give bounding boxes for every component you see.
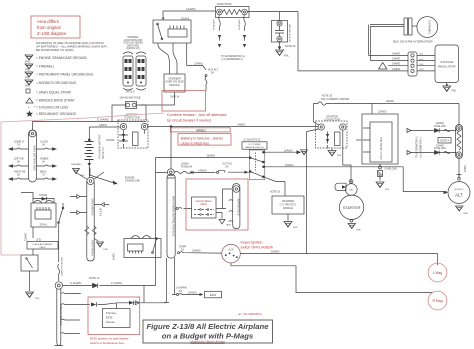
svg-text:2AWG: 2AWG xyxy=(113,253,116,260)
svg-text:MAIN BATTERY BUS: MAIN BATTERY BUS xyxy=(33,146,37,171)
svg-text:FWL: FWL xyxy=(284,56,290,58)
svg-text:22AWG: 22AWG xyxy=(188,292,197,295)
svg-text:Screen: Screen xyxy=(106,320,116,324)
svg-text:(2-10) NOTE 22: (2-10) NOTE 22 xyxy=(244,139,262,142)
svg-text:EFIS: EFIS xyxy=(210,293,216,297)
svg-text:S700-2-50 SERIES: S700-2-50 SERIES xyxy=(123,43,143,45)
svg-text:MODULE: MODULE xyxy=(169,84,180,87)
svg-text:5A: 5A xyxy=(181,249,184,252)
svg-text:NOTE 8: NOTE 8 xyxy=(99,208,101,217)
svg-text:4AWG: 4AWG xyxy=(238,123,246,127)
svg-text:5A: 5A xyxy=(17,160,20,163)
svg-text:4AWG: 4AWG xyxy=(464,165,467,172)
svg-text:FUSELINK: FUSELINK xyxy=(239,19,241,30)
svg-text:TERMINAL: TERMINAL xyxy=(127,36,139,39)
svg-text:TO ALTERNATOR (-): TO ALTERNATOR (-) xyxy=(416,136,419,158)
svg-text:LOCATIONS FOR: LOCATIONS FOR xyxy=(124,39,143,42)
svg-text:NOTE 9: NOTE 9 xyxy=(126,91,135,94)
svg-text:switch OFF/L/R/Both: switch OFF/L/R/Both xyxy=(241,246,273,250)
svg-text:= ENGINE CRANKCASE GROUND: = ENGINE CRANKCASE GROUND xyxy=(36,56,87,60)
svg-text:14AWG: 14AWG xyxy=(392,52,400,55)
svg-text:5A: 5A xyxy=(226,166,229,169)
svg-text:22AWG: 22AWG xyxy=(207,154,216,157)
svg-text:FUSE LINK: FUSE LINK xyxy=(434,148,446,150)
svg-text:FWL: FWL xyxy=(104,249,109,251)
svg-text:2 14AWG: 2 14AWG xyxy=(111,281,122,285)
svg-text:BE DOWNSIZED TO 4AWG: BE DOWNSIZED TO 4AWG xyxy=(36,48,74,52)
svg-text:GND: GND xyxy=(463,213,468,215)
svg-text:14AWG: 14AWG xyxy=(392,63,400,66)
svg-text:FWL: FWL xyxy=(385,189,390,191)
svg-text:ACS: ACS xyxy=(229,249,234,252)
svg-text:ALT: ALT xyxy=(455,193,463,198)
svg-text:S704-1: S704-1 xyxy=(40,224,48,227)
svg-text:22AWG: 22AWG xyxy=(181,163,189,166)
svg-text:HAL CURRENT LIMITER: HAL CURRENT LIMITER xyxy=(321,98,349,101)
svg-text:R Mag: R Mag xyxy=(433,299,443,303)
svg-text:ENDURANCE BUS: ENDURANCE BUS xyxy=(59,304,62,326)
svg-text:OVM-14: OVM-14 xyxy=(170,96,180,99)
svg-text:+: + xyxy=(28,105,30,109)
svg-text:NOTE 11: NOTE 11 xyxy=(455,189,465,191)
svg-text:FEED: FEED xyxy=(40,247,46,249)
svg-text:NOTE 4: NOTE 4 xyxy=(440,140,450,143)
svg-text:FWL: FWL xyxy=(337,155,342,157)
svg-text:NOTE 18: NOTE 18 xyxy=(270,191,281,194)
svg-text:5A: 5A xyxy=(17,173,20,176)
svg-text:22AWG: 22AWG xyxy=(192,250,201,253)
svg-text:JUNCTION: JUNCTION xyxy=(216,2,231,6)
svg-text:(+) LOADMETER (-): (+) LOADMETER (-) xyxy=(420,137,423,158)
svg-text:FUSELINK: FUSELINK xyxy=(214,19,216,30)
svg-text:= REDUNDANT GROUNDS: = REDUNDANT GROUNDS xyxy=(36,112,76,116)
svg-text:(-) LOADMETER (-): (-) LOADMETER (-) xyxy=(221,58,243,61)
svg-text:AVN: AVN xyxy=(25,85,30,88)
svg-text:(NOTE 17): (NOTE 17) xyxy=(102,147,105,159)
svg-text:14AWG: 14AWG xyxy=(186,7,196,11)
svg-text:1N4001: 1N4001 xyxy=(39,194,48,197)
svg-text:4AWG: 4AWG xyxy=(386,99,394,103)
svg-text:Combine revision - turn off al: Combine revision - turn off alternator xyxy=(167,113,228,117)
svg-text:CONTACTOR: CONTACTOR xyxy=(124,117,140,120)
svg-text:AVN: AVN xyxy=(227,224,232,227)
svg-text:Keyed ignition: Keyed ignition xyxy=(241,241,263,245)
svg-text:FWL: FWL xyxy=(25,69,31,72)
svg-text:FIREWALL: FIREWALL xyxy=(71,163,83,166)
svg-text:5A: 5A xyxy=(179,290,182,293)
svg-text:LR3-14 LINEAR REG: LR3-14 LINEAR REG xyxy=(380,137,383,160)
svg-text:by circuit breaker if needed: by circuit breaker if needed xyxy=(167,119,211,123)
svg-text:14AWG: 14AWG xyxy=(392,58,400,61)
svg-text:FWL: FWL xyxy=(293,227,298,229)
svg-text:22AWG: 22AWG xyxy=(284,150,293,153)
svg-text:B&C SD-8 PM ALTERNATOR: B&C SD-8 PM ALTERNATOR xyxy=(393,40,433,44)
svg-text:= AVIONICS GROUND BUS: = AVIONICS GROUND BUS xyxy=(36,81,76,85)
svg-text:DYNAMO: DYNAMO xyxy=(428,20,432,34)
svg-text:REGULATOR: REGULATOR xyxy=(438,64,456,68)
svg-text:1N5400: 1N5400 xyxy=(106,139,115,142)
svg-text:FWL: FWL xyxy=(35,298,40,300)
svg-text:GND: GND xyxy=(356,230,361,232)
svg-text:MASTER SWITCH: MASTER SWITCH xyxy=(245,146,264,149)
svg-text:22AWG: 22AWG xyxy=(436,122,444,125)
svg-text:from original: from original xyxy=(37,25,61,30)
svg-text:= BRAIDED BOND STRAP: = BRAIDED BOND STRAP xyxy=(36,99,75,103)
svg-text:22AWG FUSELINK: 22AWG FUSELINK xyxy=(60,257,63,276)
svg-text:22AWG: 22AWG xyxy=(285,164,294,167)
svg-text:NOTE 12: NOTE 12 xyxy=(89,277,100,280)
svg-text:22AWG: 22AWG xyxy=(194,62,203,66)
svg-text:CONTACTOR: CONTACTOR xyxy=(324,119,340,122)
svg-text:7A: 7A xyxy=(42,173,45,176)
svg-text:Avionics Master: Avionics Master xyxy=(196,200,212,203)
svg-text:Battery in tailcone - starter: Battery in tailcone - starter xyxy=(181,136,224,140)
svg-text:14AWG: 14AWG xyxy=(198,169,207,172)
svg-text:CRANKCASE: CRANKCASE xyxy=(125,180,140,183)
svg-text:DC POWER: DC POWER xyxy=(248,144,260,146)
svg-text:S 14AWG: S 14AWG xyxy=(97,118,109,122)
svg-text:NOTE 20: NOTE 20 xyxy=(285,45,296,48)
svg-text:SD-8 FILTER CAP: SD-8 FILTER CAP xyxy=(289,23,292,42)
svg-text:R2 3/28/2012: R2 3/28/2012 xyxy=(244,312,262,316)
svg-text:Switch: Switch xyxy=(200,203,207,206)
svg-text:8AWG: 8AWG xyxy=(197,128,207,132)
svg-text:SWITCHES: SWITCHES xyxy=(127,45,140,47)
svg-text:Area differs: Area differs xyxy=(37,19,59,24)
svg-text:(2-3): (2-3) xyxy=(36,239,41,242)
svg-text:Primary: Primary xyxy=(106,311,117,315)
svg-text:EFIS: EFIS xyxy=(106,316,112,320)
svg-text:close to Mast bus: close to Mast bus xyxy=(181,141,209,145)
svg-text:E-BUS ALTERNATE: E-BUS ALTERNATE xyxy=(33,243,53,246)
svg-text:ENG: ENG xyxy=(25,61,30,64)
svg-text:Z-13/8 diagram: Z-13/8 diagram xyxy=(37,31,67,36)
svg-text:3A: 3A xyxy=(42,143,45,146)
svg-text:= FIREWALL: = FIREWALL xyxy=(36,65,55,69)
svg-text:Figure Z-13/8 All Electric Ai: Figure Z-13/8 All Electric Airplane xyxy=(146,322,269,331)
svg-text:S 14AWG: S 14AWG xyxy=(70,281,81,285)
svg-text:7A: 7A xyxy=(17,143,20,146)
svg-text:10A INLINE FUSE: 10A INLINE FUSE xyxy=(119,96,140,100)
svg-text:CASE GND: CASE GND xyxy=(385,168,398,171)
svg-text:MAIN POWER DISTRIBUTION BUS: MAIN POWER DISTRIBUTION BUS xyxy=(171,196,174,237)
svg-text:FUSE LINK: FUSE LINK xyxy=(434,126,446,128)
svg-text:= 2AWG EQUAL STRAP: = 2AWG EQUAL STRAP xyxy=(36,91,71,95)
svg-text:* = 6 INCHES OR LESS: * = 6 INCHES OR LESS xyxy=(34,106,68,110)
svg-text:22AWG: 22AWG xyxy=(271,250,280,254)
svg-text:GROUND BUS: GROUND BUS xyxy=(91,199,94,216)
svg-text:14AWG: 14AWG xyxy=(392,68,400,71)
svg-text:22AWG: 22AWG xyxy=(24,233,27,241)
svg-text:4AWG: 4AWG xyxy=(99,123,107,127)
svg-text:22AWG: 22AWG xyxy=(436,144,444,147)
svg-text:PNL: PNL xyxy=(25,77,30,80)
svg-text:(DETAIL UP): (DETAIL UP) xyxy=(126,47,139,50)
svg-text:switch or Endurance bus: switch or Endurance bus xyxy=(90,341,124,345)
svg-text:22AWG: 22AWG xyxy=(378,111,387,114)
svg-text:FWL: FWL xyxy=(452,91,458,93)
svg-text:INSTR PANEL: INSTR PANEL xyxy=(91,240,94,257)
svg-text:RC2: RC2 xyxy=(420,69,425,71)
svg-text:FUSELINK: FUSELINK xyxy=(181,167,193,169)
svg-text:Modified by Brian Utzman: Modified by Brian Utzman xyxy=(190,340,225,344)
svg-text:MODULE: MODULE xyxy=(283,207,294,210)
svg-text:STARTER: STARTER xyxy=(343,205,361,210)
svg-text:L Mag: L Mag xyxy=(433,271,442,275)
svg-text:5A: 5A xyxy=(211,72,214,75)
svg-text:3A: 3A xyxy=(42,160,45,163)
svg-text:AVIONICS BUS: AVIONICS BUS xyxy=(236,199,239,216)
svg-text:= INSTRUMENT PANEL GROUND BUS: = INSTRUMENT PANEL GROUND BUS xyxy=(36,73,93,77)
